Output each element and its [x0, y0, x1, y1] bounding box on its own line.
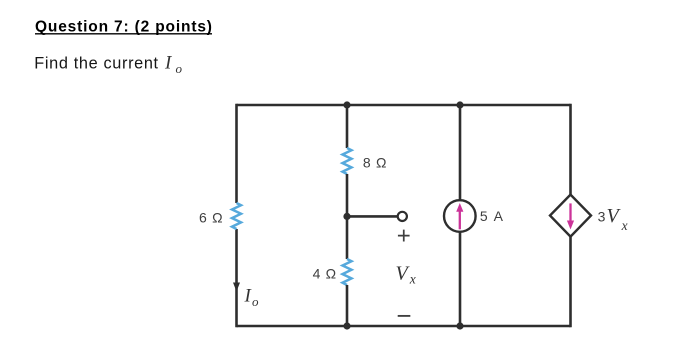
resistor R 6ohm — [232, 203, 241, 229]
svg-text:I: I — [164, 53, 173, 74]
junction node top source — [456, 101, 463, 108]
wire middle upper — [346, 105, 349, 148]
junction node bottom source — [456, 322, 463, 329]
svg-text:5 A: 5 A — [480, 208, 504, 224]
svg-text:x: x — [409, 272, 416, 287]
dependent source arrow — [569, 203, 571, 221]
svg-text:4 Ω: 4 Ω — [313, 266, 337, 282]
wire middle mid — [346, 174, 349, 259]
resistor R 8ohm — [343, 148, 352, 174]
wire source upper — [459, 105, 462, 201]
current source 5A circle — [444, 200, 476, 232]
dependent source diamond — [550, 195, 591, 237]
svg-text:+: + — [397, 222, 411, 249]
arrow Io — [233, 283, 240, 292]
svg-text:x: x — [621, 218, 628, 233]
svg-text:−: − — [396, 301, 411, 331]
wire right upper — [569, 104, 572, 196]
junction node mid — [343, 213, 350, 220]
wire left upper — [235, 104, 238, 203]
junction node top middle — [343, 101, 350, 108]
terminal open circle — [398, 212, 407, 221]
svg-text:3: 3 — [598, 209, 606, 225]
wire left lower — [235, 229, 238, 327]
wire node to terminal — [347, 215, 397, 218]
svg-text:8 Ω: 8 Ω — [363, 154, 387, 170]
wire middle lower — [346, 285, 349, 326]
svg-text:V: V — [396, 263, 411, 285]
svg-text:o: o — [176, 61, 183, 76]
wire source lower — [459, 231, 462, 326]
wire bottom — [237, 325, 571, 328]
svg-text:V: V — [607, 205, 622, 227]
wire top — [237, 104, 571, 107]
wire right lower — [569, 235, 572, 327]
svg-text:6 Ω: 6 Ω — [199, 210, 223, 226]
svg-text:Question 7: (2 points): Question 7: (2 points) — [35, 18, 213, 35]
current source arrow — [459, 210, 461, 229]
resistor R 4ohm — [343, 259, 352, 285]
svg-text:Find the current: Find the current — [34, 55, 158, 73]
junction node bottom middle — [343, 322, 350, 329]
svg-text:o: o — [252, 294, 259, 309]
